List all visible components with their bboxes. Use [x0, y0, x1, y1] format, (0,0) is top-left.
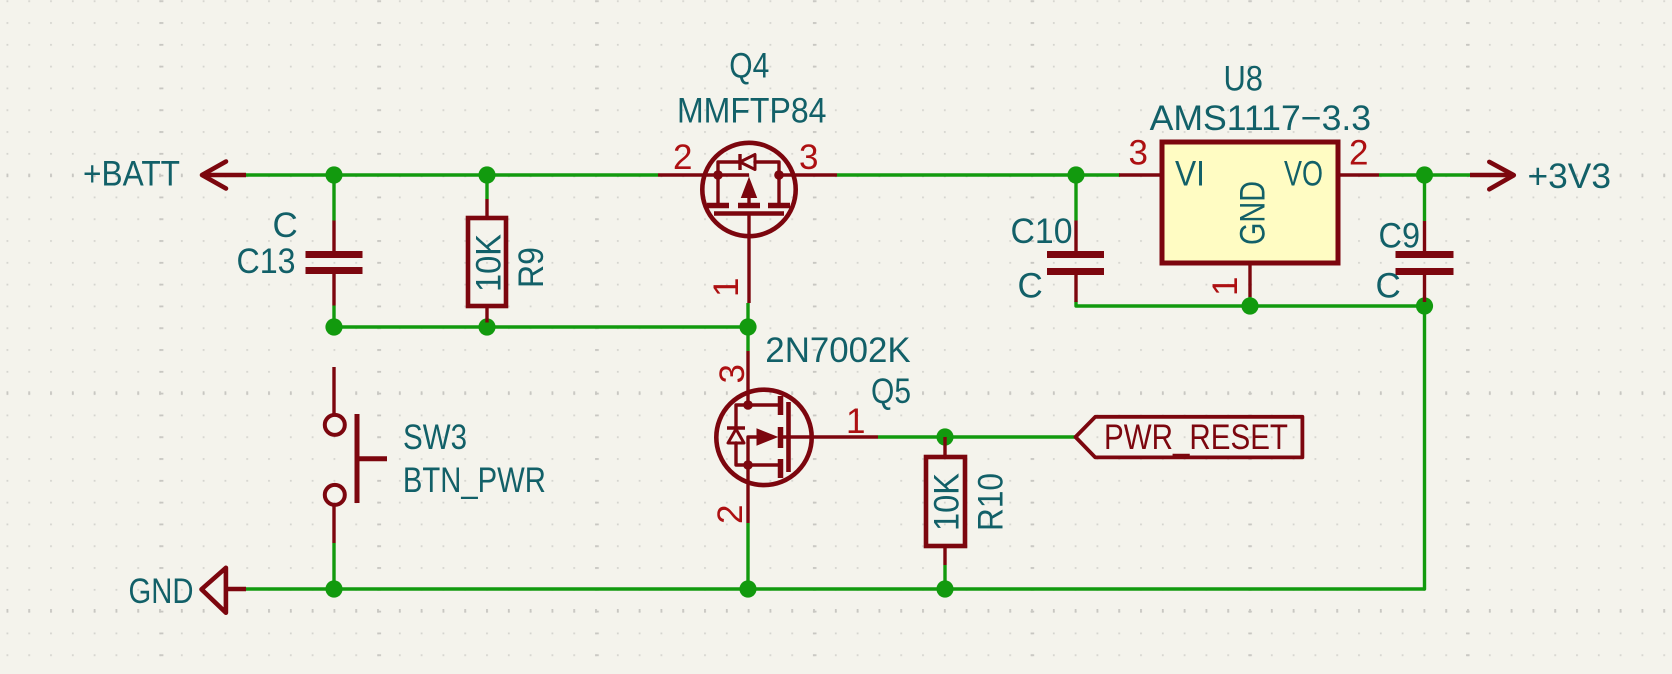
global label PWR_RESET: [1076, 417, 1303, 458]
svg-text:VI: VI: [1175, 155, 1205, 194]
svg-text:Q4: Q4: [729, 47, 769, 86]
svg-text:2: 2: [711, 505, 750, 524]
svg-text:1: 1: [707, 278, 746, 297]
svg-text:C: C: [1376, 267, 1401, 306]
junction GND/Q5: [739, 580, 756, 597]
junction C13/SW3: [325, 318, 342, 335]
wire C13 bottom: [332, 306, 335, 328]
wire C10 bottom ground link: [1076, 302, 1425, 306]
Q5 pin 2 bottom: [746, 465, 749, 523]
U8 pin 2 VO: [1338, 173, 1379, 176]
capacitor C9: [1376, 217, 1454, 306]
wire U8 GND pin to ground link: [1248, 297, 1251, 306]
junction +BATT/R9: [478, 166, 495, 183]
svg-text:VO: VO: [1284, 155, 1323, 194]
power label +BATT: [83, 155, 246, 194]
svg-text:+BATT: +BATT: [83, 155, 180, 194]
capacitor C10: [1011, 212, 1105, 305]
svg-text:BTN_PWR: BTN_PWR: [403, 461, 546, 500]
svg-text:SW3: SW3: [403, 418, 467, 457]
svg-text:MMFTP84: MMFTP84: [677, 91, 827, 130]
svg-text:R10: R10: [972, 473, 1011, 531]
junction GND/R10: [936, 580, 953, 597]
Q5 bottom dot link: [748, 463, 780, 466]
Q4 pin 2: [658, 173, 718, 176]
wire R9 bottom: [485, 323, 488, 328]
junction U8 GND: [1241, 297, 1258, 314]
svg-text:C13: C13: [237, 242, 296, 281]
svg-text:2: 2: [673, 138, 692, 177]
Q4 channel bars: [707, 203, 729, 209]
svg-text:3: 3: [713, 364, 752, 383]
wire R9 top: [485, 175, 488, 199]
junction PWR_RESET/R10: [936, 428, 953, 445]
power label +3V3: [1470, 157, 1611, 196]
Q5 gate bar: [786, 402, 791, 472]
Q4 body diode: [718, 162, 740, 175]
Q5 source arrow: [757, 429, 777, 445]
junction +BATT/C13: [325, 166, 342, 183]
Q5 top dot link: [748, 403, 780, 406]
svg-text:Q5: Q5: [871, 372, 911, 411]
wire C9 bottom riser: [1423, 306, 1426, 589]
wire mid horizontal node: [334, 325, 748, 328]
U8 pin 3 VI: [1119, 173, 1162, 176]
switch SW3: [325, 367, 546, 543]
Q5 body diode: [736, 405, 748, 428]
junction gate Q4: [739, 318, 756, 335]
Q5 channel bars: [778, 396, 784, 415]
U8 pin 1 GND: [1248, 263, 1251, 297]
junction R9 bottom: [478, 318, 495, 335]
wire C10 top: [1074, 175, 1077, 221]
svg-text:U8: U8: [1224, 60, 1264, 99]
svg-text:3: 3: [1129, 134, 1148, 173]
junction GND/SW3: [325, 580, 342, 597]
resistor R10: [926, 437, 1011, 565]
wire R10 bottom: [943, 565, 946, 589]
Q4 pin 1 gate: [747, 214, 750, 304]
svg-text:1: 1: [846, 402, 865, 441]
svg-text:PWR_RESET: PWR_RESET: [1104, 418, 1288, 457]
svg-text:1: 1: [1206, 277, 1245, 296]
wire C13 top: [332, 175, 335, 221]
svg-text:10K: 10K: [470, 234, 509, 292]
Q4 gate bar: [714, 211, 784, 216]
wire GND rail: [246, 587, 1425, 590]
wire SW3 bottom to GND rail: [332, 543, 335, 589]
wire node to Q5 drain: [746, 327, 749, 351]
capacitor C13: [237, 206, 363, 306]
wire Q5 gate to PWR_RESET: [878, 435, 1076, 438]
svg-text:3: 3: [799, 138, 818, 177]
wire Q4 gate to node: [746, 303, 749, 327]
svg-text:2N7002K: 2N7002K: [765, 331, 910, 370]
Q4 source/drain dots: [713, 170, 723, 180]
junction C10 top: [1067, 166, 1084, 183]
resistor R9: [468, 199, 551, 323]
wire Q5 source to GND rail: [746, 523, 749, 589]
svg-text:+3V3: +3V3: [1528, 157, 1612, 196]
wire U8 VO to +3V3: [1379, 173, 1470, 176]
svg-text:2: 2: [1349, 134, 1368, 173]
junction +3V3/C9: [1416, 166, 1433, 183]
regulator U8 AMS1117-3.3: [1119, 60, 1379, 298]
svg-text:AMS1117−3.3: AMS1117−3.3: [1150, 99, 1372, 138]
wire Q4 drain to C10/U8: [837, 173, 1120, 176]
svg-text:GND: GND: [129, 572, 194, 611]
svg-text:10K: 10K: [928, 473, 967, 531]
transistor Q4: [658, 47, 837, 304]
svg-text:C9: C9: [1379, 217, 1421, 256]
svg-text:R9: R9: [512, 247, 551, 288]
SW3 actuator: [355, 414, 360, 503]
Q4 pin 3: [779, 173, 837, 176]
ground label GND: [129, 568, 247, 613]
Q5 body dots: [743, 400, 753, 410]
svg-text:GND: GND: [1234, 181, 1273, 245]
Q5 pin 3 top: [746, 351, 749, 405]
svg-text:C: C: [1018, 267, 1043, 306]
svg-text:C10: C10: [1011, 212, 1073, 251]
Q4 substrate arrow: [718, 173, 749, 176]
transistor Q5: [711, 331, 911, 524]
wire C9 top: [1423, 175, 1426, 221]
wire +BATT main rail: [246, 173, 658, 176]
junction C9 bottom: [1416, 297, 1433, 314]
Q5 pin 1 right: [780, 435, 878, 438]
svg-text:C: C: [273, 206, 298, 245]
